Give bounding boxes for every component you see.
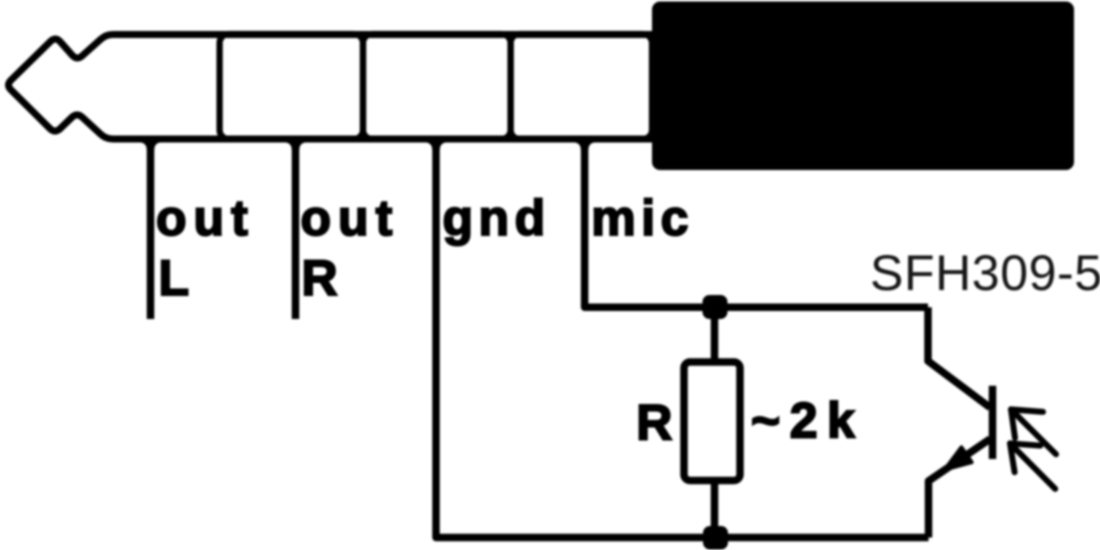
svg-text:R: R (302, 250, 338, 306)
jack plug outline (tip + shaft) (9, 35, 653, 140)
transistor Q1 collector wire (928, 307, 990, 407)
wire-to-jack fillet at x=295.5 (285, 142, 306, 150)
wire mic (down then right to node) (585, 139, 928, 307)
light arrow 2 head (1010, 443, 1040, 472)
node top junction dot (703, 295, 728, 319)
wire-to-jack fillet at x=584.6 (574, 142, 595, 150)
jack separator 2 (cell ring gnd) (363, 34, 511, 139)
svg-text:out: out (156, 190, 255, 246)
transistor Q1 emitter wire (929, 439, 991, 538)
wire gnd (down and right along bottom) (436, 139, 929, 538)
svg-text:R: R (636, 395, 672, 451)
svg-text:gnd: gnd (443, 190, 551, 246)
resistor R body (684, 362, 740, 481)
wire out R (292, 139, 300, 319)
light arrow 1 head (1011, 409, 1043, 438)
transistor Q1 base bar (989, 386, 997, 459)
light arrow 1 shaft (1011, 409, 1056, 454)
svg-text:out: out (301, 190, 400, 246)
jack separator 1 (cell ring R) (220, 34, 363, 139)
wire-to-jack fillet at x=150.5 (140, 142, 161, 150)
light arrow 2 shaft (1010, 443, 1055, 489)
resistor R top lead (711, 307, 719, 362)
svg-text:SFH309-5: SFH309-5 (870, 245, 1100, 301)
svg-text:~2k: ~2k (751, 393, 864, 449)
resistor R bottom lead (711, 481, 719, 538)
wire-to-jack fillet at x=436.0 (426, 142, 447, 150)
svg-text:L: L (159, 250, 190, 306)
svg-text:mic: mic (591, 190, 694, 246)
jack body (black housing) (652, 2, 1074, 171)
jack separator 3 (cell sleeve mic) (511, 34, 652, 139)
node bottom junction dot (703, 526, 728, 550)
wire out L (147, 139, 155, 319)
transistor Q1 emitter arrowhead (945, 447, 972, 469)
